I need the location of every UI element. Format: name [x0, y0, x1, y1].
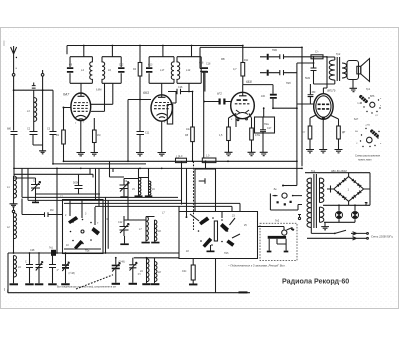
svg-text:5000: 5000 [73, 181, 79, 185]
ground bar [142, 241, 150, 244]
wire mid bus 2 (chassis) [14, 167, 302, 169]
ground bar [135, 195, 143, 197]
inductor L10 [140, 259, 149, 282]
tube V4 6P6S [314, 88, 336, 121]
wire L2 to bus [13, 239, 15, 253]
inductor L5 [132, 178, 141, 196]
pickup head [267, 236, 289, 253]
node antenna terminal 1 [12, 62, 15, 131]
wire heater rail [323, 202, 370, 206]
wire switch feeds [57, 168, 99, 253]
trimmer capacitor C4 [14, 178, 41, 203]
svg-text:6Б8: 6Б8 [246, 80, 252, 84]
svg-text:П1Б: П1Б [272, 48, 277, 52]
svg-text:С13: С13 [148, 64, 153, 67]
wire V2 leads [128, 76, 176, 161]
wire osc mid links [22, 168, 186, 203]
label sprinkles [7, 58, 375, 252]
tube V2 anode plate [167, 105, 172, 125]
svg-text:П2б: П2б [286, 81, 291, 85]
speaker Gr1 [347, 59, 371, 92]
svg-text:Тр2: Тр2 [336, 52, 341, 56]
svg-text:С17: С17 [267, 127, 272, 130]
lamp L1 [335, 205, 343, 222]
wire can feeds [84, 46, 192, 63]
capacitor C27 [305, 56, 327, 84]
svg-text:Сеть 220В 50Гц: Сеть 220В 50Гц [371, 235, 393, 239]
tube V3 6G2 [231, 80, 255, 121]
capacitor C1 [11, 132, 18, 169]
svg-text:+250: +250 [365, 125, 371, 127]
ground bar [10, 277, 19, 285]
capacitor C8 [22, 199, 63, 218]
svg-text:7Сг: 7Сг [357, 103, 361, 105]
svg-text:3Н: 3Н [355, 131, 358, 133]
jack Gn1 [49, 247, 56, 256]
label sockets caption [355, 155, 381, 162]
svg-text:L12: L12 [186, 68, 191, 72]
capacitor C21 [261, 94, 297, 108]
capacitor C25 tone [260, 48, 302, 60]
wire left frame drop [7, 253, 9, 293]
ground bar [120, 236, 129, 245]
capacitor C11 [137, 132, 145, 153]
svg-text:– Подключается к 3 зажимам: – Подключается к 3 зажимам „Рекорд" Вол [227, 264, 285, 268]
node antenna terminal 2 [41, 70, 44, 145]
svg-text:6А7: 6А7 [354, 118, 359, 121]
svg-text:Гн1: Гн1 [49, 247, 53, 250]
band switch S1a [64, 200, 101, 253]
inductor L8 [155, 220, 162, 241]
svg-text:5М2: 5М2 [305, 76, 311, 80]
ground [158, 153, 167, 156]
resistor R10 [227, 114, 236, 141]
wire bottom drop [215, 259, 217, 293]
svg-text:Схема расположения: Схема расположения [355, 155, 381, 158]
tube V1 6A7 [63, 83, 91, 124]
wire lamp bottoms [324, 221, 355, 223]
band switch S1b [185, 206, 247, 255]
resistor R16 [337, 126, 346, 139]
wire bridge links [327, 173, 370, 206]
trimmer capacitor C33 [61, 253, 75, 285]
ground bar [151, 241, 159, 243]
trimmer capacitor C12 [120, 220, 130, 236]
IF transformer T2 secondary [177, 57, 201, 84]
ground [319, 150, 327, 153]
capacitor C2 [30, 122, 43, 146]
wire osc top link [14, 168, 93, 177]
svg-text:6А7: 6А7 [63, 93, 70, 97]
svg-text:(7-48): (7-48) [119, 262, 125, 264]
ground [77, 153, 86, 156]
svg-text:Гр1: Гр1 [366, 87, 371, 91]
trimmer capacitor C31 [35, 253, 44, 285]
capacitor C19 grid [203, 92, 230, 105]
svg-text:±4С: ±4С [182, 270, 187, 273]
motor M1 [258, 227, 295, 236]
wire second top rail [200, 47, 302, 66]
wire power box [305, 173, 370, 206]
IF transformer T2 primary [146, 57, 174, 84]
svg-text:ножек ламп: ножек ламп [358, 159, 372, 162]
ground [306, 150, 314, 153]
inductor L1 [7, 176, 17, 198]
resistor R2 [93, 130, 97, 143]
resistor R4 [133, 63, 142, 100]
ground [136, 153, 144, 156]
trimmer capacitor C35 [129, 258, 142, 285]
svg-text:L17: L17 [160, 68, 165, 72]
svg-text:МВ: МВ [221, 58, 225, 61]
capacitor C30 [25, 253, 34, 285]
inductor L11 [155, 262, 162, 282]
wire pickup lead [282, 185, 297, 187]
capacitor C24 [308, 84, 316, 104]
svg-text:6К3: 6К3 [143, 91, 149, 95]
ground bar [151, 281, 159, 285]
svg-text:С11: С11 [145, 132, 150, 135]
ground [225, 152, 233, 155]
ground [335, 150, 343, 153]
socket pinout B [355, 125, 382, 148]
capacitor C18 [200, 63, 211, 159]
ground [260, 152, 268, 155]
ground [350, 88, 358, 91]
label bottom note [57, 275, 116, 289]
svg-text:680: 680 [7, 128, 12, 131]
capacitor C15 [201, 67, 208, 91]
svg-text:П2а: П2а [264, 122, 269, 126]
svg-text:1М: 1М [97, 134, 100, 137]
resistor R11 [233, 46, 249, 85]
connector Zv1 [270, 187, 302, 210]
node terminal L2 [12, 207, 14, 213]
wire mid bus 1 [53, 163, 146, 165]
switch P2 box [194, 161, 216, 230]
trimmer capacitor C34 [112, 258, 125, 285]
wire V4 plate to Tr2 [323, 57, 327, 88]
lamp L2 [351, 205, 359, 222]
switch P1a box [63, 200, 104, 254]
ground bar [142, 281, 150, 285]
svg-text:4М: 4М [50, 209, 53, 212]
wire osc group1 links [110, 161, 149, 220]
switch P1b box [95, 203, 258, 258]
wire lower tie line [106, 197, 180, 257]
wire bottom bus [8, 252, 179, 254]
resistor R18 [182, 258, 197, 285]
transformer Tr1 [307, 174, 324, 228]
node terminal 2 [298, 215, 301, 220]
transformer Tr2 output [327, 52, 347, 84]
svg-text:R11: R11 [244, 59, 249, 62]
capacitor C16 coupling [168, 86, 193, 94]
wire V3 leads [229, 108, 264, 152]
ground bar on line [239, 291, 248, 293]
wire L10 feeds [147, 258, 155, 262]
switch P2a box [255, 117, 275, 133]
capacitor C3 [50, 132, 57, 164]
wire V3 top cap network [243, 85, 273, 94]
wire center verticals [182, 161, 211, 206]
svg-text:С12: С12 [118, 221, 123, 224]
IF transformer T1 secondary [102, 57, 125, 84]
ground [91, 153, 99, 156]
antenna W1 [11, 46, 18, 70]
capacitor C26 tone [260, 70, 297, 85]
svg-text:6,8М: 6,8М [96, 89, 101, 92]
svg-text:П1б: П1б [224, 252, 229, 255]
rectifier bridge D1 [334, 177, 364, 202]
ground [10, 198, 18, 207]
inductor L3 [27, 98, 37, 122]
svg-text:С18: С18 [206, 63, 211, 66]
resistor R1 [62, 130, 66, 161]
svg-text:С18: С18 [199, 62, 204, 65]
resistor R12 [250, 128, 254, 140]
svg-text:ДР: ДР [342, 131, 346, 134]
svg-text:к: к [380, 105, 381, 107]
wire antenna link [14, 83, 53, 98]
svg-text:(7-48): (7-48) [69, 273, 75, 275]
svg-text:С12: С12 [119, 64, 124, 67]
wire V4 leads [297, 104, 339, 149]
svg-text:1*: 1* [57, 270, 59, 272]
wire tube V1 leads [64, 83, 113, 152]
svg-text:100: 100 [261, 95, 266, 98]
inductor L7 [139, 217, 148, 241]
svg-text:Все конденсаторы указаны в: Все конденсаторы указаны в мкф, сопротив… [57, 286, 116, 289]
record player dashed box [260, 223, 297, 260]
switch S2 mains [307, 227, 368, 240]
svg-text:Тр1: Тр1 [311, 170, 316, 173]
inductor L9 (ant coil 3) [14, 256, 22, 278]
inductor L6 [149, 181, 156, 195]
svg-text:C16: C16 [178, 86, 183, 89]
wire C3 branch [52, 90, 54, 131]
svg-text:Радиола Рекорд·60: Радиола Рекорд·60 [282, 278, 349, 286]
capacitor C6 5000 [73, 175, 83, 194]
IF transformer T1 primary [67, 57, 93, 84]
svg-text:(6П1П): (6П1П) [327, 89, 336, 93]
resistor R13 volume [176, 155, 187, 163]
trimmer capacitor C10 [120, 179, 130, 198]
svg-text:Гн2: Гн2 [275, 219, 280, 223]
ground bar [145, 195, 153, 197]
resistor R8 [185, 127, 194, 161]
svg-text:С28: С28 [30, 249, 35, 252]
wire AVC vertical [297, 63, 314, 186]
ground [207, 245, 215, 252]
wire AF line [64, 160, 297, 162]
wire bottom frame line [8, 290, 250, 293]
svg-text:4,7: 4,7 [233, 67, 237, 71]
svg-text:АВС-80-260М: АВС-80-260М [331, 170, 347, 173]
capacitor C32 [48, 253, 59, 285]
ground [321, 222, 329, 230]
wire P2a to ground [262, 132, 264, 153]
svg-text:П1а: П1а [85, 250, 90, 253]
inductor L2 [7, 213, 17, 239]
wire B+ right vertical [302, 57, 327, 167]
svg-text:6П6: 6П6 [370, 95, 375, 98]
resistor R17 [311, 50, 323, 59]
tube V2 6K3 [143, 83, 172, 124]
resistor R14 [202, 158, 216, 163]
svg-text:6Г2: 6Г2 [217, 92, 222, 96]
ground [248, 152, 256, 155]
ground [39, 145, 46, 154]
wire B+ top bus [67, 45, 244, 55]
wire plate feed [189, 83, 193, 127]
wire osc group2 links [124, 216, 155, 236]
resistor R15 [308, 126, 312, 139]
socket pinout A [357, 94, 382, 117]
